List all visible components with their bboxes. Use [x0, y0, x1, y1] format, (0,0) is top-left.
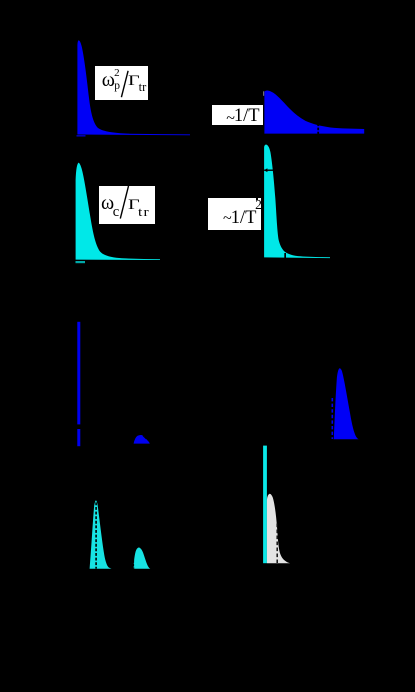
line: bottom-right tall cyan spike [263, 446, 267, 564]
label box: ~1/T (top-right) [212, 105, 263, 125]
label box: omega_p^2 / Gamma_tr [0, 0, 1, 1]
line: black dashed line through tall cyan peak [95, 502, 97, 568]
label box: omega_p^2/Gamma_tr (top-left) [95, 66, 148, 100]
peak: bottom-left tall cyan peak [90, 500, 112, 568]
line: middle-plot thin blue delta line [77, 322, 80, 446]
curve: top-right blue ~1/T decay [264, 91, 364, 134]
tick: small gray dash left of curve start [263, 91, 264, 96]
label box: ~1/T^2 (second-row-right) [208, 198, 261, 230]
peak: second-row-right cyan ~1/T^2 peak [264, 145, 330, 259]
label box: omega_c/Gamma_tr (second-row-left) [99, 186, 155, 224]
tick: dark-blue tick under top-left axis [77, 135, 86, 137]
tick: dotted black tick inside blue at x=318 [317, 124, 319, 135]
peak: second-row-left cyan omega_c/Gamma_tr peak [76, 163, 160, 260]
tick: dark-teal tick under second-row-left axis [76, 261, 86, 263]
peak: bottom-right gray decaying peak [267, 494, 290, 563]
arrow: black width marker across cyan peak [264, 168, 277, 172]
peak: middle-plot small blue hatched bump [134, 435, 150, 444]
line: black dashed line inside gray peak [276, 524, 278, 564]
peak: bottom-left small cyan peak [133, 548, 151, 569]
peak: middle-plot right blue peak with dashed left edge [332, 368, 358, 439]
peak: top-left blue omega_p^2/Gamma_tr spectral peak [77, 40, 190, 135]
tick: black tick crossing baseline at x=285 [284, 253, 286, 260]
